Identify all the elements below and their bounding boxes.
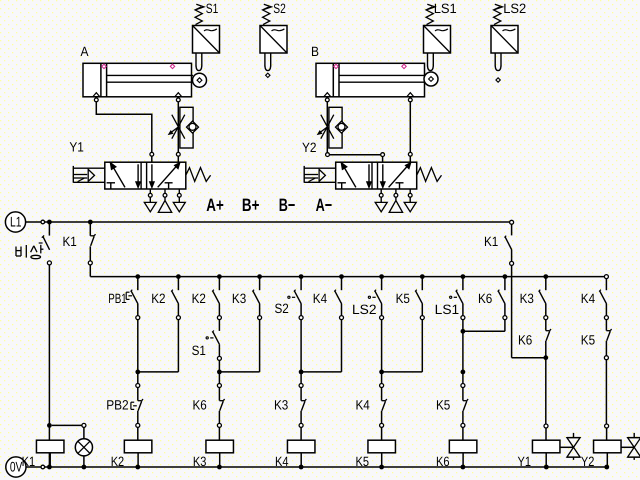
svg-text:K6: K6: [193, 397, 207, 412]
svg-text:K5: K5: [356, 454, 370, 469]
svg-text:K3: K3: [232, 291, 246, 306]
svg-text:K6: K6: [436, 454, 450, 469]
svg-text:Y1: Y1: [69, 140, 84, 155]
svg-text:B: B: [311, 44, 319, 59]
svg-text:K3: K3: [193, 454, 207, 469]
svg-text:K6: K6: [478, 291, 492, 306]
svg-text:A+: A+: [206, 195, 224, 215]
svg-text:A−: A−: [316, 195, 333, 215]
svg-text:K5: K5: [396, 291, 410, 306]
svg-text:S2: S2: [273, 1, 286, 16]
svg-text:S1: S1: [206, 1, 219, 16]
svg-text:K5: K5: [436, 397, 450, 412]
svg-text:B−: B−: [279, 195, 296, 215]
svg-text:K4: K4: [356, 397, 371, 412]
svg-text:K4: K4: [313, 291, 328, 306]
svg-text:LS2: LS2: [352, 302, 377, 317]
svg-text:PB1: PB1: [108, 291, 127, 306]
svg-text:S2: S2: [275, 301, 289, 316]
svg-text:Y2: Y2: [302, 140, 317, 155]
svg-text:K1: K1: [484, 234, 498, 249]
svg-text:K1: K1: [22, 454, 36, 469]
svg-text:K1: K1: [63, 234, 77, 249]
svg-text:K4: K4: [275, 454, 289, 469]
svg-text:K2: K2: [151, 291, 165, 306]
svg-text:B+: B+: [242, 195, 260, 215]
svg-text:Y2: Y2: [581, 454, 595, 469]
svg-text:LS1: LS1: [434, 1, 457, 16]
svg-text:K2: K2: [111, 454, 125, 469]
svg-text:Y1: Y1: [518, 454, 532, 469]
svg-text:K3: K3: [520, 291, 534, 306]
svg-text:K4: K4: [581, 291, 596, 306]
svg-text:K3: K3: [274, 397, 288, 412]
svg-text:K2: K2: [192, 291, 206, 306]
svg-text:PB2: PB2: [106, 398, 129, 413]
svg-text:LS2: LS2: [503, 1, 526, 16]
svg-text:L1: L1: [10, 214, 22, 230]
svg-text:A: A: [81, 44, 89, 59]
svg-text:LS1: LS1: [435, 302, 460, 317]
svg-text:K6: K6: [518, 333, 532, 348]
svg-text:S1: S1: [192, 343, 206, 358]
svg-text:K5: K5: [581, 333, 595, 348]
